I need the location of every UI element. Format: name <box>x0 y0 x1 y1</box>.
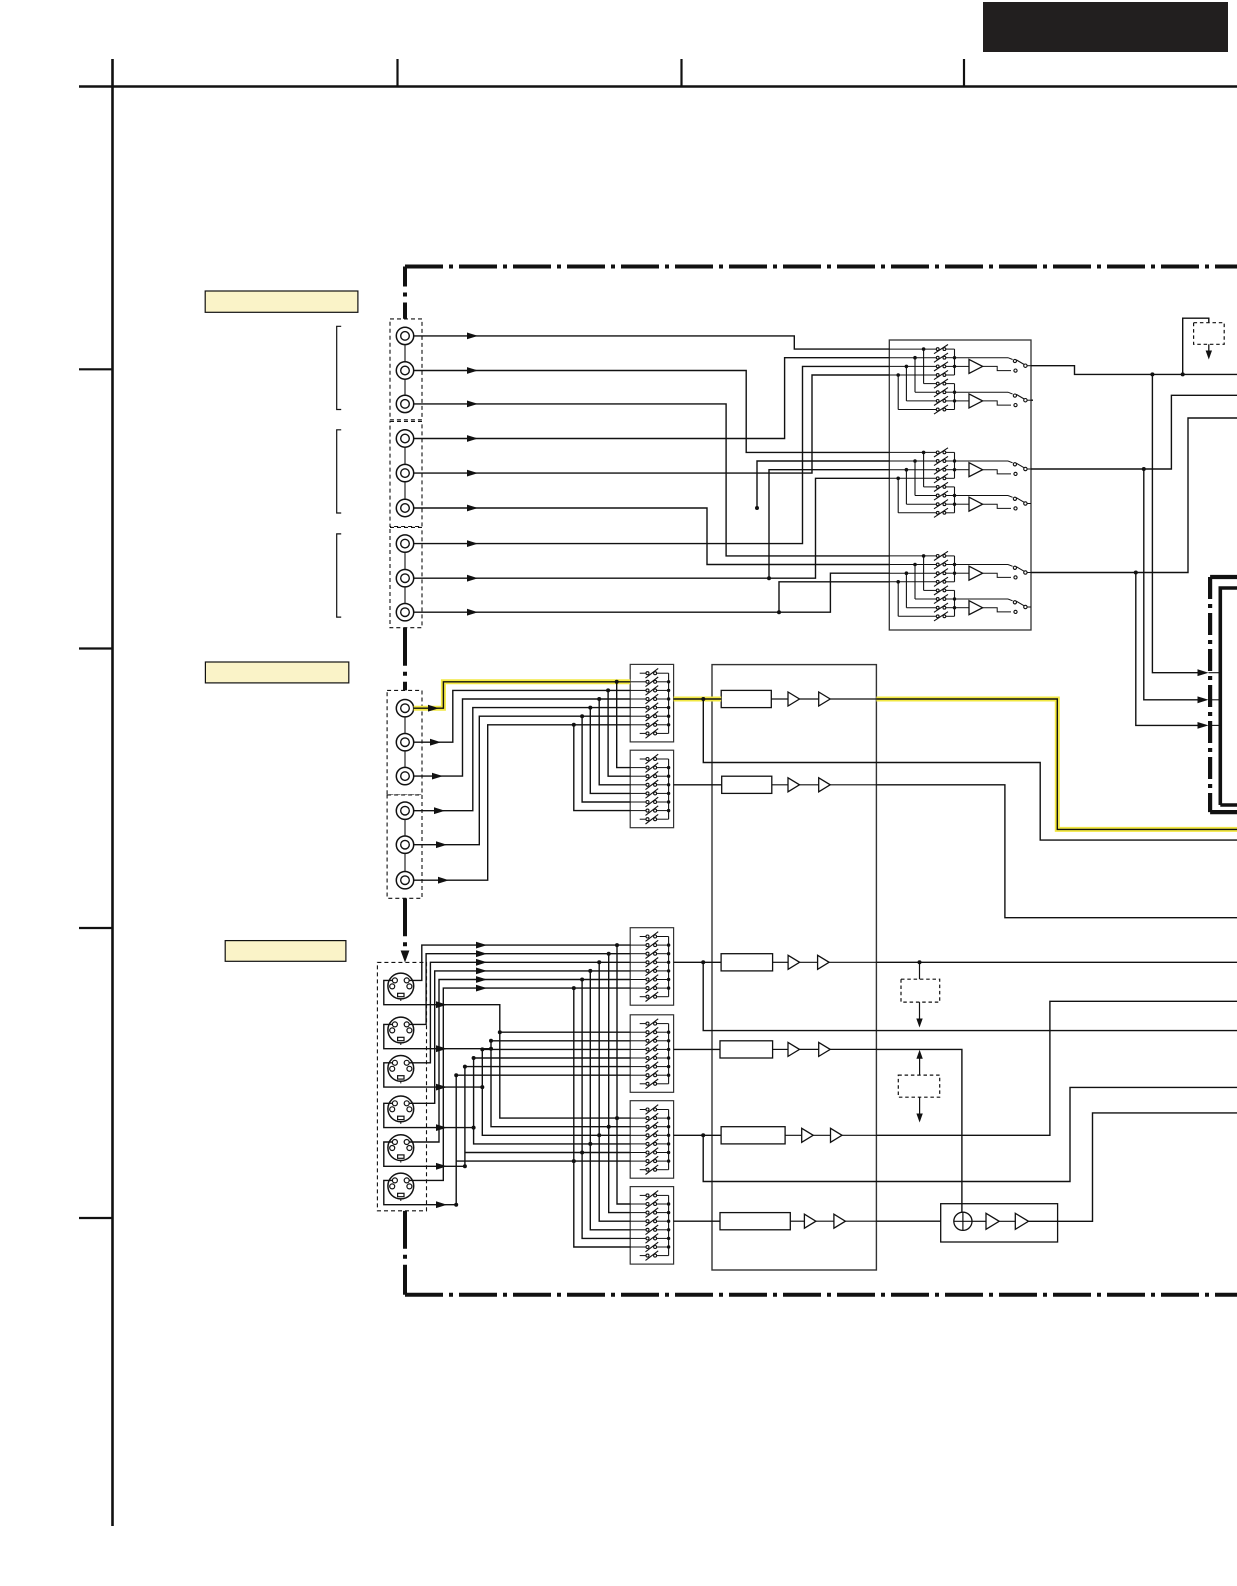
amp chain s-video C1 (R4, A7, A8) <box>720 1041 876 1058</box>
wire S4 row4 input <box>482 1048 630 1050</box>
wire S2 output to R2 <box>674 784 722 786</box>
wire tap J6 to matrix g2 row2 <box>755 461 889 510</box>
arrow video 1 into monitor block <box>1198 669 1209 676</box>
amp chain component Pb (R2, A3, A4) <box>722 776 877 793</box>
wire S4 row3 input <box>491 1040 630 1042</box>
composite video jack J8 <box>396 570 413 604</box>
composite video jack J2 <box>396 362 413 395</box>
wire J20 C to S4/S5 rows <box>384 1065 630 1170</box>
wire S1 row6 tap down to S2 row6 <box>582 716 630 802</box>
input group bracket 1 <box>337 326 342 409</box>
wire J4 to matrix g1 row2 <box>414 358 890 442</box>
wire Y1 out to edge <box>876 960 1237 964</box>
wire component Pb out <box>876 785 1237 918</box>
arrow out of option block D2 <box>916 1002 922 1027</box>
wire S4/C1 amp output <box>674 1048 720 1050</box>
composite video jack J4 <box>396 430 413 465</box>
wire S3 row6 tap down to S5/S6 rows <box>580 980 630 1239</box>
component video jack J15 <box>396 872 413 889</box>
wire J6 to matrix g3 row2 <box>414 505 890 565</box>
wire S3 row4 tap down to S5/S6 rows <box>597 962 630 1221</box>
wire tap J8 to matrix g2 row3 <box>767 470 889 581</box>
yellow highlighted signal path (component Y) <box>414 682 1237 830</box>
amp chain s-video Y2 (R5, A9, A10) <box>721 1127 876 1144</box>
monitor output block outer border <box>1210 577 1237 812</box>
label box COMPOSITE VIDEO INPUT <box>205 291 358 312</box>
wire J10 to S1 row2 (yellow path) <box>414 680 631 712</box>
s-video jack J18 <box>388 1056 414 1084</box>
wire video out 2 <box>1031 395 1237 471</box>
page margin horizontal rule <box>79 85 1237 88</box>
composite switch group 1 (switches, buffer amps, output selectors) <box>889 345 1031 415</box>
wire component Y out (yellow path, black core) <box>876 699 1237 829</box>
wire J12 to S1 row4 <box>414 697 631 780</box>
amp chain component Y (R1, A1, A2) <box>721 690 876 707</box>
monitor output block inner border <box>1220 588 1237 805</box>
wire J18 C to S4/S5 rows <box>384 1047 630 1135</box>
composite jack group box 3 <box>390 527 422 627</box>
wire J9 to matrix g3 row3 <box>414 573 890 615</box>
composite video jack J1 <box>396 327 413 362</box>
wire modulator output <box>1029 1220 1058 1222</box>
s-video jack J20 <box>388 1135 414 1163</box>
composite switch group 2 (switches, buffer amps, output selectors) <box>889 448 1031 518</box>
wire J21 Y to S3 row7 <box>409 985 630 1181</box>
arrow video 3 into monitor block <box>1198 722 1209 729</box>
option block (dashed) D3 <box>898 1075 939 1097</box>
component select switch matrix S2 <box>630 750 673 828</box>
s-video select switch matrix S6 <box>630 1187 673 1265</box>
wire J1 to matrix row1 <box>414 333 890 350</box>
wire S1 row5 tap down to S2 row5 <box>590 708 630 794</box>
s-video jack J19 <box>388 1096 414 1124</box>
wire J17 Y to S3 row3 <box>409 950 630 1024</box>
composite video jack J9 <box>396 604 413 621</box>
title header block <box>983 2 1228 52</box>
page margin vertical rule <box>111 59 114 1526</box>
wire J8 to matrix g2 row4 <box>414 478 890 581</box>
component video jack J14 <box>396 836 413 872</box>
tick mark left 4 <box>79 1217 113 1219</box>
wire S1 row7 tap down to S2 row7 <box>574 725 630 811</box>
sync level block (dashed) D1 <box>1194 323 1225 345</box>
input group bracket 3 <box>337 534 342 617</box>
wire S3 row5 tap down to S5/S6 rows <box>588 971 630 1230</box>
wire drop video 2 to monitor block <box>1144 469 1205 700</box>
wire tap J9 to matrix g3 row4 <box>777 582 889 614</box>
wire J21 C to S4/S5 rows <box>384 1073 630 1208</box>
tick mark top 2 <box>680 59 682 87</box>
arrow video 2 into monitor block <box>1198 696 1209 703</box>
wire monitor video out 1 <box>1031 366 1237 377</box>
component video jack J11 <box>396 734 413 768</box>
composite switch matrix box IC1 <box>889 340 1031 630</box>
amp chain s-video C2 (R6, A11, A12) <box>720 1213 876 1230</box>
wire J13 to S1 row5 <box>414 706 631 815</box>
tick mark left 1 <box>79 368 113 370</box>
tick mark top 1 <box>396 59 398 87</box>
wire S3 row2 tap down to S5/S6 rows <box>615 945 630 1204</box>
arrow down from option block D3 <box>916 1097 922 1122</box>
wire into option block D2 <box>919 962 921 979</box>
wire S4 row6 input <box>465 1066 630 1068</box>
arrow out of sync block <box>1206 344 1212 359</box>
wire S3 row7 tap down to S5/S6 rows <box>572 988 630 1247</box>
label box S-VIDEO INPUT <box>225 941 346 962</box>
wire S3 row3 tap down to S5/S6 rows <box>607 954 631 1213</box>
wire record out stub g1 <box>1031 399 1033 401</box>
wire S5/Y2 amp output <box>674 1133 722 1137</box>
wire J14 to S1 row6 <box>414 714 631 848</box>
wire J16 Y to S3 row2 <box>409 942 630 981</box>
amp chain s-video Y1 (R3, A5, A6) <box>721 954 876 971</box>
board outline left edge <box>403 267 407 1295</box>
wire J16 C to S4/S5 rows <box>384 980 630 1118</box>
tick mark left 2 <box>79 647 113 649</box>
component video jack J12 <box>396 767 413 784</box>
board outline bottom edge <box>405 1293 1237 1297</box>
s-video jack J21 <box>388 1173 414 1201</box>
wire into monitor block 3 <box>1209 724 1220 726</box>
s-video jack J17 <box>388 1017 414 1045</box>
wire S3/Y1 amp output <box>674 960 722 964</box>
wire J19 Y to S3 row5 <box>409 968 630 1104</box>
wire C1 out to modulator <box>876 1049 962 1212</box>
wire S4 row5 input <box>474 1057 631 1059</box>
wire to sync block <box>1183 318 1209 374</box>
board outline arrow into S-video block <box>401 951 410 963</box>
wire J18 Y to S3 row4 <box>409 959 630 1063</box>
wire S4 row2 input <box>500 1031 630 1033</box>
tick mark top 3 <box>963 59 965 87</box>
wire J2 to matrix g2 row1 <box>414 367 890 452</box>
composite video jack J6 <box>396 499 413 516</box>
wire J20 Y to S3 row6 <box>409 976 630 1142</box>
option block (dashed) D2 <box>901 979 940 1002</box>
wire modulator out to edge <box>1058 1113 1237 1221</box>
wire J3 to matrix g3 row1 <box>414 401 890 556</box>
composite video jack J7 <box>396 535 413 570</box>
modulator block M1 (mixer and amps) <box>941 1204 1058 1242</box>
wire S1 row3 tap down to S2 row3 <box>608 690 630 776</box>
component jack group box 1 <box>387 690 422 795</box>
wire J7 to matrix g1 row3 <box>414 366 890 547</box>
wire J11 to S1 row3 <box>414 688 631 745</box>
input group bracket 2 <box>337 430 342 513</box>
s-video select switch matrix S4 <box>630 1015 673 1093</box>
wire J19 C to S4/S5 rows <box>384 1056 630 1144</box>
wire S6/C2 amp output <box>674 1220 720 1222</box>
composite video jack J5 <box>396 464 413 499</box>
component select switch matrix S1 <box>630 664 673 742</box>
wire video out 3 <box>1031 418 1237 575</box>
wire into monitor block 1 <box>1209 672 1220 674</box>
wire J17 C to S4/S5 rows <box>384 1024 630 1126</box>
composite jack group box 1 <box>390 319 422 420</box>
component video jack J10 <box>396 700 413 734</box>
video amplifier block box <box>712 665 876 1270</box>
wire S1 row4 tap down to S2 row4 <box>599 699 630 785</box>
s-video select switch matrix S5 <box>630 1101 673 1179</box>
wire C2 out to modulator box <box>876 1220 940 1222</box>
label box COMPONENT VIDEO INPUT <box>205 662 348 683</box>
component video jack J13 <box>396 802 413 836</box>
wire S1 output to R1 <box>674 697 722 701</box>
s-video jack group box <box>377 962 426 1210</box>
composite switch group 3 (switches, buffer amps, output selectors) <box>889 551 1031 621</box>
wire component Y bypass <box>703 699 1237 840</box>
wire drop video 1 to monitor block <box>1152 374 1204 672</box>
wire Y2 bypass <box>703 1087 1237 1181</box>
arrow up from option block D3 <box>916 1050 922 1075</box>
s-video jack J16 <box>388 973 414 1001</box>
wire S1 row2 tap down to S2 row2 <box>617 682 631 768</box>
s-video select switch matrix S3 <box>630 928 673 1006</box>
component jack group box 2 <box>387 795 422 898</box>
board outline top edge <box>405 265 1237 269</box>
composite video jack J3 <box>396 395 413 412</box>
wire drop video 3 to monitor block <box>1136 573 1205 726</box>
wire J15 to S1 row7 <box>414 723 631 884</box>
wire into monitor block 2 <box>1209 699 1220 701</box>
composite jack group box 2 <box>390 421 422 526</box>
wire J5 to matrix g1 row4 <box>414 375 890 477</box>
wire S4 row7 input <box>456 1074 630 1076</box>
wire Y1 bypass <box>703 962 1237 1030</box>
tick mark left 3 <box>79 927 113 929</box>
wire Y2 out to edge <box>876 1001 1237 1135</box>
